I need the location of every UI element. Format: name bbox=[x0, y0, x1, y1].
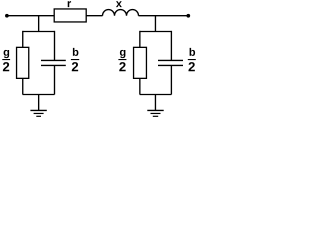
resistor g/2 (left) box bbox=[17, 47, 29, 78]
label g/2 denominator (right) bbox=[119, 62, 125, 71]
inductor X (series) : three arcs bbox=[103, 10, 139, 16]
capacitor b/2 (right) top plate bbox=[158, 59, 183, 61]
wire: right shunt bottom bar bbox=[140, 94, 172, 96]
capacitor b/2 (left) bottom plate bbox=[41, 64, 66, 66]
wire: left ground stem bbox=[38, 95, 40, 111]
wire: right shunt left branch down to g/2 box bbox=[139, 31, 141, 48]
wire: below left g/2 box bbox=[22, 78, 24, 94]
wire: resistor r to inductor x bbox=[86, 15, 102, 17]
label b/2 denominator (right) bbox=[188, 62, 194, 71]
wire: below left b/2 capacitor bbox=[54, 65, 56, 94]
wire: right cap branch down to b/2 bbox=[170, 31, 172, 61]
fraction bar g/2 (left) bbox=[2, 59, 10, 61]
circuit: nominal pi-model of a transmission line bbox=[0, 0, 200, 118]
label g/2 denominator (left) bbox=[3, 62, 9, 71]
wire: below right b/2 capacitor bbox=[170, 65, 172, 94]
wire: left shunt left branch down to g/2 box bbox=[22, 31, 24, 48]
wire: left cap branch down to b/2 bbox=[54, 31, 56, 61]
label r (series resistance) bbox=[68, 1, 71, 7]
wire: right shunt feed from top rail bbox=[154, 16, 156, 32]
node: right terminal dot bbox=[186, 14, 190, 18]
fraction bar g/2 (right) bbox=[118, 59, 126, 61]
label g/2 numerator (left) bbox=[4, 50, 10, 58]
node: left terminal dot bbox=[5, 14, 9, 18]
label b/2 numerator (right) bbox=[190, 48, 196, 56]
resistor R (series) box bbox=[54, 9, 86, 22]
wire: left shunt bottom bar bbox=[23, 94, 55, 96]
fraction bar b/2 (right) bbox=[188, 59, 196, 61]
wire: inductor x to right terminal bbox=[139, 15, 189, 17]
wire: left terminal to resistor r bbox=[7, 15, 54, 17]
label g/2 numerator (right) bbox=[120, 50, 126, 58]
wire: left shunt top bar bbox=[23, 31, 55, 33]
resistor g/2 (right) box bbox=[134, 47, 147, 78]
wire: below right g/2 box bbox=[139, 78, 141, 94]
wire: right ground stem bbox=[154, 95, 156, 111]
label b/2 denominator (left) bbox=[72, 62, 78, 71]
wire: left shunt feed from top rail bbox=[38, 16, 40, 32]
label x (series reactance) bbox=[116, 1, 122, 7]
label b/2 numerator (left) bbox=[73, 48, 79, 56]
fraction bar b/2 (left) bbox=[71, 59, 79, 61]
wire: right shunt top bar bbox=[140, 31, 172, 33]
capacitor b/2 (left) top plate bbox=[41, 59, 66, 61]
ground (left) bbox=[30, 109, 46, 111]
capacitor b/2 (right) bottom plate bbox=[158, 64, 183, 66]
ground (right) bbox=[147, 109, 163, 111]
